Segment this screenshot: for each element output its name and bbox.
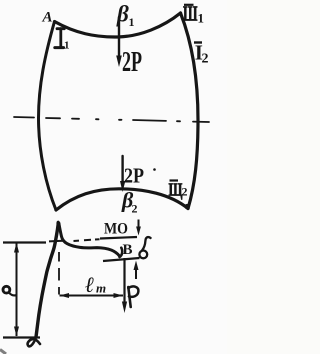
svg-text:m: m [96, 281, 106, 296]
dashed vertical below cusp [58, 252, 60, 295]
barrel right edge [181, 13, 199, 209]
force 2P top: line through top edge with down arrow [118, 17, 120, 58]
bottom-left corner smudge [0, 350, 6, 354]
steep curve ascending to cusp A [36, 224, 58, 337]
svg-text:1: 1 [198, 11, 205, 26]
MO level line [100, 237, 137, 239]
rho dimension vertical with arrows [16, 243, 18, 336]
dashed reference continue [49, 239, 100, 241]
label Sh1 (top right) with overbar [184, 4, 194, 6]
barrel left edge [39, 22, 57, 211]
force P line with down arrow [123, 258, 125, 303]
svg-text:2: 2 [132, 202, 138, 216]
label delta [142, 237, 150, 250]
cusp curl [56, 222, 60, 226]
svg-text:2P: 2P [122, 47, 142, 78]
loop at curve bottom [28, 337, 40, 347]
svg-text:Ш: Ш [183, 2, 198, 26]
svg-text:1: 1 [64, 40, 70, 52]
barrel top edge [55, 13, 181, 37]
centerline dash-dot [14, 117, 209, 122]
svg-text:2: 2 [202, 52, 209, 67]
force 2P bottom: line with down arrow to bottom edge [121, 156, 123, 182]
svg-text:ℓ: ℓ [85, 272, 94, 297]
hook at curve end [120, 248, 123, 257]
delta bottom arrow (up) [135, 270, 137, 279]
label rho [3, 286, 10, 293]
svg-text:2: 2 [182, 185, 188, 199]
svg-text:2P: 2P [124, 164, 144, 188]
svg-text:МО: МО [104, 221, 128, 238]
lm dimension line [60, 295, 124, 297]
delta top arrow (down) [138, 220, 140, 229]
label P [128, 287, 130, 307]
rho dimension bottom line [3, 336, 40, 338]
speck after 2P [153, 168, 156, 171]
svg-text:A: A [42, 10, 53, 26]
svg-text:В: В [123, 242, 133, 258]
curve descending from cusp to point B [59, 223, 120, 256]
symbol I1 (bar I with subscript 1) [55, 29, 65, 48]
B level line [103, 258, 140, 261]
svg-text:1: 1 [129, 15, 135, 29]
rho dimension top reference line [3, 241, 46, 243]
paper background [0, 0, 227, 354]
label Sh2 (bottom right) with overbar [170, 179, 179, 181]
barrel bottom edge [56, 189, 188, 210]
label I2 (right side) with overbar [194, 41, 202, 43]
corner joint blob (bottom-right) [184, 204, 189, 209]
